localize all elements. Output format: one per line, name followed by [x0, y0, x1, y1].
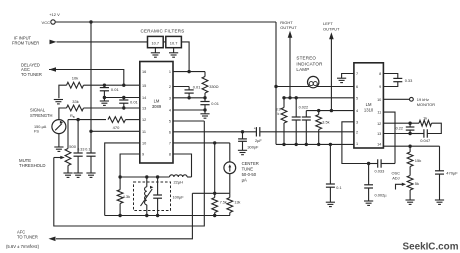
svg-text:0.033: 0.033: [375, 168, 385, 173]
svg-text:5k: 5k: [415, 181, 419, 186]
power terminal +12V VCC: [42, 12, 61, 25]
wire pin5 row U2: [284, 97, 354, 99]
wire pin13 row: [383, 133, 410, 135]
svg-text:IF INPUT: IF INPUT: [14, 35, 32, 40]
arrow IF input: [50, 40, 57, 45]
svg-text:3: 3: [356, 120, 358, 124]
svg-text:3.5k: 3.5k: [322, 120, 329, 124]
wire pin10 row: [105, 143, 140, 216]
node pin3/C6: [187, 96, 190, 99]
wire U2 pin3 chain: [342, 122, 369, 164]
svg-text:µA: µA: [242, 178, 247, 183]
svg-text:MUTE: MUTE: [19, 158, 31, 163]
dashed box quad coil: [134, 182, 171, 211]
ground C18: [435, 200, 444, 204]
capacitor C14 0.002u: [364, 164, 373, 201]
svg-text:15k: 15k: [415, 158, 421, 163]
svg-text:10: 10: [142, 142, 146, 146]
svg-text:1310: 1310: [364, 108, 374, 113]
svg-text:ADJ: ADJ: [392, 176, 399, 181]
svg-text:150-µA: 150-µA: [34, 125, 47, 129]
svg-text:300pF: 300pF: [247, 145, 259, 150]
svg-text:MONITOR: MONITOR: [417, 102, 435, 107]
svg-text:22µH: 22µH: [174, 179, 184, 184]
label DELAYED AGC TO TUNER: [21, 63, 42, 77]
wire delayed AGC: [49, 70, 124, 86]
svg-text:470µF: 470µF: [446, 171, 458, 176]
node pin15/AGC: [122, 84, 125, 87]
wire pin7 row: [173, 142, 230, 144]
capacitor C12 0.1 (U2 bypass): [326, 144, 335, 202]
ground pin14 node: [100, 98, 109, 106]
ground C3: [74, 173, 83, 177]
node audio/300pF: [241, 130, 244, 133]
arrow osc adj wiper: [396, 184, 403, 189]
wire pin2 row: [173, 86, 189, 88]
wire pin14 row: [383, 145, 439, 147]
wire Vcc left bus drop x=91: [90, 22, 92, 131]
wire tank bottom rail: [105, 215, 230, 217]
capacitor C3 0.33: [74, 120, 83, 173]
wire 10k left to ground: [59, 85, 67, 98]
svg-text:4.3k: 4.3k: [123, 194, 131, 199]
svg-text:+12 V: +12 V: [49, 12, 60, 17]
ground C14: [364, 201, 373, 205]
wire 33k right to pin13: [84, 107, 140, 109]
svg-text:TO TUNER: TO TUNER: [17, 235, 38, 240]
node 7.5k bottom rail: [213, 214, 216, 217]
node pin14/15k: [408, 145, 411, 148]
ground U2 pin7: [337, 78, 346, 82]
wire 470 to pin12: [126, 119, 140, 121]
svg-text:0.33: 0.33: [405, 78, 413, 83]
ground 5k: [406, 200, 415, 204]
wire pin10 monitor: [383, 98, 409, 100]
svg-text:50-0-50: 50-0-50: [242, 172, 257, 177]
wire pin11 drop: [383, 112, 395, 163]
ground FL2: [169, 53, 178, 57]
wire lamp row to U2 pin6: [276, 86, 354, 88]
resistor R9 3.5k: [316, 111, 322, 145]
wire left output drop: [330, 38, 332, 111]
node 4.3k bottom: [118, 214, 121, 217]
wire C15 to pin9: [383, 82, 397, 87]
lamp stereo indicator: [308, 76, 319, 87]
svg-text:5: 5: [356, 96, 358, 100]
svg-text:THRESHOLD: THRESHOLD: [19, 163, 46, 168]
svg-text:FS: FS: [34, 129, 39, 133]
wire U2 pin7 to ground: [342, 74, 354, 79]
svg-text:2: 2: [169, 85, 171, 89]
node pin13/cap2: [122, 106, 125, 109]
svg-text:LAMP: LAMP: [296, 67, 309, 72]
svg-text:10k: 10k: [72, 75, 78, 80]
node pin7/drop: [213, 141, 216, 144]
op-amp U1 LM3089 body: [140, 62, 173, 164]
wire pin3 row: [173, 97, 205, 99]
node cap bottom: [156, 214, 159, 217]
resistor R1 10k: [67, 82, 84, 88]
node pin1/filter: [187, 70, 190, 73]
potentiometer R12 5k osc adj: [407, 176, 413, 200]
svg-text:0.22: 0.22: [396, 127, 403, 131]
node 7.5k top: [213, 192, 216, 195]
wire Vcc bus to U2 pin1: [276, 143, 354, 145]
svg-text:4: 4: [356, 109, 358, 113]
arrow mute wiper: [54, 157, 62, 159]
svg-text:FROM TUNER: FROM TUNER: [12, 41, 39, 46]
wire IF input to ceramic filter: [57, 41, 148, 43]
wire pot 500 drop: [67, 120, 69, 149]
node 0.022 cap1 top: [295, 96, 298, 99]
node Vcc rail / left bus junction: [89, 20, 92, 23]
svg-text:4: 4: [169, 109, 171, 113]
arrow right output: [288, 31, 293, 38]
wire pin15 row: [84, 84, 140, 86]
svg-text:100µF: 100µF: [173, 194, 185, 199]
node 3.5k top: [317, 109, 320, 112]
svg-text:CERAMIC FILTERS: CERAMIC FILTERS: [141, 29, 185, 34]
wire Vcc rail top: [55, 21, 276, 23]
U1 pin numbers: [142, 70, 171, 156]
wire pot to ground: [67, 166, 69, 173]
label LEFT OUTPUT: [323, 21, 340, 31]
capacitor C10 0.022: [292, 98, 301, 145]
terminal 19kHz monitor: [410, 97, 414, 101]
svg-text:k: k: [278, 112, 280, 116]
svg-text:1k: 1k: [423, 116, 427, 121]
wire pin1 row: [173, 71, 205, 73]
svg-text:0.01: 0.01: [111, 87, 120, 92]
node coil bottom: [145, 214, 148, 217]
node pin4/C7: [203, 108, 206, 111]
wire to 0.033: [369, 163, 378, 165]
ceramic filter FL1 10.7: [148, 36, 164, 47]
inductor 22uH: [170, 175, 188, 177]
wire pin5 stub: [173, 120, 204, 122]
wire FL1 ground stem: [154, 48, 156, 53]
node pin14/ground: [103, 96, 106, 99]
node left-output/pin4 row: [330, 109, 333, 112]
svg-text:11: 11: [142, 130, 146, 134]
wire pin9 row: [120, 154, 140, 177]
svg-text:LM: LM: [154, 99, 160, 104]
resistor R3 470: [108, 117, 126, 123]
capacitor C16 0.047: [424, 129, 427, 137]
svg-text:INDICATOR: INDICATOR: [296, 61, 323, 66]
node bus/3.5k: [317, 143, 320, 146]
label IF INPUT FROM TUNER: [12, 35, 39, 45]
ground FL1: [151, 53, 160, 57]
capacitor C7 0.01 (pin3-pin4): [200, 98, 209, 110]
svg-text:3: 3: [169, 96, 171, 100]
svg-text:0.33: 0.33: [77, 148, 84, 152]
node pin3/330: [203, 96, 206, 99]
wire pin7 drop: [214, 143, 216, 193]
resistor R5 330 ohm: [202, 72, 208, 98]
svg-text:0.047: 0.047: [420, 138, 431, 143]
svg-text:0.01: 0.01: [211, 101, 219, 106]
node tank cap top: [156, 175, 159, 178]
capacitor C2 0.01 (pin14-pin13): [119, 98, 128, 109]
label RIGHT OUTPUT: [280, 20, 297, 30]
svg-text:13k: 13k: [234, 200, 240, 204]
label CENTER TUNE 50-0-50 uA: [242, 161, 259, 183]
node pin14/cap2: [122, 96, 125, 99]
resistor R4 4.3k: [117, 177, 123, 216]
svg-text:33k: 33k: [72, 99, 78, 104]
wire pin8-pin9 loop: [383, 74, 397, 79]
wire pin4 row: [173, 109, 205, 111]
label AFC TO TUNER: [17, 229, 38, 239]
svg-text:12: 12: [142, 118, 146, 122]
node pin11 Vcc: [89, 130, 92, 133]
svg-text:14: 14: [142, 96, 146, 100]
capacitor C15 0.33: [393, 78, 402, 81]
ground C12: [326, 202, 335, 206]
svg-text:330Ω: 330Ω: [209, 84, 218, 89]
svg-text:TUNE: TUNE: [242, 167, 254, 172]
svg-text:B: B: [73, 115, 75, 119]
svg-text:16: 16: [142, 70, 146, 74]
svg-text:SeekIC.com: SeekIC.com: [403, 241, 459, 252]
label 3.9k: [276, 108, 281, 116]
node quad coil top: [145, 175, 148, 178]
wire meter M2 top: [229, 143, 231, 162]
wire 0.033 to pin11 drop: [381, 163, 395, 165]
svg-text:6: 6: [169, 130, 171, 134]
capacitor C8 300pF: [238, 132, 247, 150]
svg-text:14: 14: [377, 142, 381, 146]
resistor R2 33k: [67, 105, 84, 111]
wire coil to pin8: [173, 154, 192, 177]
resistor R10 1k: [419, 120, 432, 126]
svg-text:0.022: 0.022: [299, 106, 309, 110]
wire FL2 output to pin1: [181, 42, 189, 72]
ground pin4: [200, 110, 209, 118]
svg-text:11: 11: [377, 111, 381, 115]
svg-text:10: 10: [377, 98, 381, 102]
wire pin12 row left: [78, 119, 106, 121]
op-amp U2 LM1310 body: [354, 63, 384, 148]
wire meter M1 to ground: [58, 134, 60, 147]
wire mute to pin5: [54, 121, 205, 226]
svg-text:0.01: 0.01: [130, 99, 139, 104]
label 19 kHz MONITOR: [417, 97, 435, 107]
svg-text:12: 12: [377, 122, 381, 126]
capacitor C4 0.1 (Vcc bypass): [86, 131, 95, 173]
ground meter M1: [54, 147, 63, 151]
svg-text:VCC: VCC: [42, 20, 51, 25]
capacitor C5 100uF tank: [153, 177, 162, 216]
meter M1 signal strength: [52, 120, 66, 134]
svg-text:8: 8: [379, 72, 381, 76]
svg-text:LM: LM: [366, 102, 372, 107]
node pin15/cap 0.01: [103, 84, 106, 87]
svg-text:0.01: 0.01: [193, 84, 201, 89]
ground C4: [86, 173, 95, 177]
svg-text:1: 1: [356, 142, 358, 146]
label OSC ADJ: [392, 170, 401, 180]
node tank rail / 4.3k top: [118, 175, 121, 178]
node bus/C10: [295, 143, 298, 146]
capacitor C13 0.033: [378, 159, 381, 167]
wire audio to U2 pin2: [260, 131, 354, 133]
U2 pin numbers: [356, 72, 381, 146]
svg-text:500: 500: [69, 144, 76, 149]
node bus/0.1: [329, 143, 332, 146]
label MUTE THRESHOLD: [19, 158, 46, 168]
svg-text:0.1: 0.1: [336, 186, 341, 190]
wire 33k left corner to meter: [59, 108, 67, 120]
svg-text:15: 15: [142, 84, 146, 88]
svg-text:13: 13: [377, 132, 381, 136]
svg-text:7: 7: [169, 142, 171, 146]
svg-text:5: 5: [169, 120, 171, 124]
svg-text:2µF: 2µF: [255, 138, 262, 143]
svg-text:9: 9: [379, 85, 381, 89]
node pin12 RB: [76, 118, 79, 121]
svg-text:7: 7: [356, 72, 358, 76]
wire right output drop: [289, 37, 291, 98]
wire pot-top stub: [68, 119, 78, 121]
potentiometer 500 mute threshold: [65, 149, 71, 166]
wire filter interconnect: [163, 41, 166, 43]
svg-text:TO TUNER: TO TUNER: [21, 72, 42, 77]
variable inductor quad coil: [141, 177, 154, 216]
wire pin14 row: [104, 97, 139, 99]
arrow AFC to tuner: [49, 237, 56, 242]
capacitor C1 0.01 (pin15): [100, 85, 109, 97]
node right-output/pin5 row: [288, 96, 291, 99]
node pin13/0.22: [408, 132, 411, 135]
wire 1k loop corner: [427, 123, 441, 133]
wire tank top rail: [120, 176, 169, 178]
svg-text:8: 8: [169, 153, 171, 157]
svg-text:13: 13: [142, 107, 146, 111]
wire pin6 audio row: [173, 131, 256, 133]
svg-text:0.002µ: 0.002µ: [375, 193, 388, 198]
wire 15k-5k: [409, 167, 411, 176]
resistor R11 15k: [407, 146, 413, 166]
svg-text:STEREO: STEREO: [296, 56, 316, 61]
svg-text:2: 2: [356, 130, 358, 134]
wire pin4 row U2: [306, 110, 354, 112]
ground pot 500: [63, 173, 72, 177]
svg-text:470: 470: [113, 125, 120, 130]
label 150-uA FS: [34, 125, 47, 133]
svg-text:+: +: [254, 126, 256, 130]
capacitor C11 0.022 (left): [302, 111, 311, 145]
resistor R8 3.9k: [281, 98, 287, 145]
wire AFC drop: [56, 193, 192, 239]
node 3.9k top: [282, 96, 285, 99]
svg-text:6: 6: [356, 85, 358, 89]
resistor R7 13k: [227, 193, 233, 215]
wire pin11 row: [91, 130, 140, 132]
svg-text:10.7: 10.7: [152, 41, 160, 46]
ceramic filter FL2 10.7: [166, 36, 182, 47]
meter M2 center tune: [224, 162, 236, 174]
ground 10k: [54, 100, 63, 104]
resistor R6 7.5k: [212, 193, 218, 215]
capacitor C17 0.22: [406, 123, 415, 133]
node bus/3.9k: [282, 143, 285, 146]
svg-text:CENTER: CENTER: [242, 161, 259, 166]
svg-text:1: 1: [169, 70, 171, 74]
label SIGNAL STRENGTH: [30, 108, 53, 118]
wire 0.047 to pin13 node: [410, 133, 424, 135]
svg-text:STRENGTH: STRENGTH: [30, 113, 53, 118]
svg-text:OUTPUT: OUTPUT: [323, 26, 340, 31]
svg-text:3089: 3089: [152, 104, 162, 109]
svg-text:9: 9: [142, 153, 144, 157]
wire Vcc corner drop to lamp row and bus: [275, 22, 277, 144]
node Vcc/lamp row: [274, 85, 277, 88]
node 0.033/0.002: [367, 162, 370, 165]
svg-text:10.7: 10.7: [170, 41, 178, 46]
capacitor C6 0.01 (pin2): [185, 87, 194, 98]
node bus/C11: [305, 143, 308, 146]
svg-text:(5.6V ± 7mV/kHz): (5.6V ± 7mV/kHz): [6, 244, 40, 249]
wire meter M2 bottom: [229, 174, 231, 194]
label STEREO INDICATOR LAMP: [296, 56, 323, 73]
capacitor C18 470uF: [435, 146, 444, 200]
capacitor C9 2uF coupling: [254, 126, 260, 136]
node pin12/0.22: [408, 122, 411, 125]
wire FL2 ground stem: [173, 48, 175, 53]
ground C8: [238, 150, 247, 154]
wire pin12 row: [383, 122, 419, 124]
wire meter bottom row: [192, 192, 229, 194]
arrow left output: [329, 32, 334, 39]
svg-text:0.1: 0.1: [85, 148, 90, 152]
arrow delayed AGC: [49, 67, 56, 72]
svg-text:OUTPUT: OUTPUT: [280, 25, 297, 30]
